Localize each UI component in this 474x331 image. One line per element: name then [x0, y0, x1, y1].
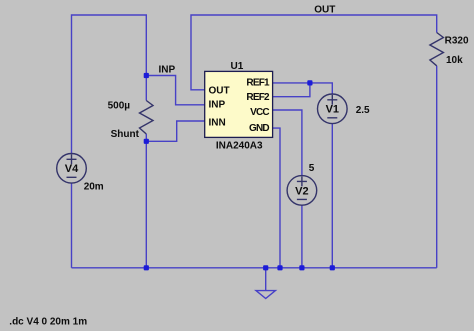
svg-text:INA240A3: INA240A3	[216, 140, 263, 151]
svg-text:GND: GND	[249, 123, 269, 134]
svg-text:5: 5	[309, 163, 315, 174]
wire INN pin to shunt bottom node	[146, 121, 204, 141]
ground	[256, 291, 275, 299]
svg-text:500µ: 500µ	[108, 100, 131, 111]
junction node INP	[144, 73, 149, 78]
svg-text:V4: V4	[65, 163, 79, 175]
svg-text:R320: R320	[445, 36, 469, 47]
wire ground stem	[265, 268, 267, 290]
wire shunt top lead	[145, 76, 147, 101]
wire V2 bottom to rail	[301, 205, 303, 268]
junction rail GND pin	[277, 265, 282, 270]
wire V4 bottom to rail	[71, 183, 73, 268]
wire R320 bottom to rail	[436, 66, 438, 268]
junction node REF	[307, 80, 312, 85]
wire REF2 pin up to junction	[273, 83, 310, 97]
svg-text:V1: V1	[326, 104, 339, 116]
svg-text:.dc V4 0 20m 1m: .dc V4 0 20m 1m	[9, 316, 87, 327]
svg-text:OUT: OUT	[314, 4, 335, 15]
svg-text:REF1: REF1	[246, 77, 270, 88]
wire V1 bottom to rail	[331, 123, 333, 267]
wire OUT pin to top rail to R320	[191, 15, 437, 90]
resistor R320	[430, 33, 444, 66]
junction rail V1	[330, 265, 335, 270]
svg-text:INP: INP	[209, 99, 226, 110]
wire node INP to pin INP	[146, 76, 204, 105]
wire junction to V1 top	[310, 83, 332, 94]
svg-text:VCC: VCC	[250, 107, 269, 118]
wire VCC pin to V2 top	[273, 110, 302, 176]
voltage source V2	[287, 176, 317, 206]
op-amp U1 INA240A3 body	[205, 71, 273, 137]
wire shunt bottom lead to node	[145, 134, 147, 141]
voltage source V4	[57, 154, 87, 184]
junction shunt bottom	[144, 139, 149, 144]
svg-text:20m: 20m	[84, 182, 104, 193]
wire GND pin down to rail	[273, 128, 280, 268]
svg-text:INP: INP	[159, 65, 176, 76]
svg-text:2.5: 2.5	[356, 105, 370, 116]
wire top-left rail V4 to shunt top	[72, 15, 147, 154]
junction rail ground	[263, 265, 268, 270]
svg-text:OUT: OUT	[209, 86, 230, 97]
wire bottom rail	[72, 267, 437, 269]
svg-text:V2: V2	[295, 185, 308, 197]
junction rail V2	[299, 265, 304, 270]
junction rail shunt	[144, 265, 149, 270]
svg-text:Shunt: Shunt	[111, 129, 140, 140]
svg-text:INN: INN	[209, 117, 226, 128]
resistor Rshunt 500u	[140, 101, 154, 135]
svg-text:U1: U1	[231, 61, 244, 72]
svg-text:REF2: REF2	[246, 92, 270, 103]
wire shunt node to bottom rail	[145, 141, 147, 267]
voltage source V1	[318, 94, 348, 124]
wire REF1 pin to junction	[273, 82, 310, 84]
svg-text:10k: 10k	[446, 55, 463, 66]
